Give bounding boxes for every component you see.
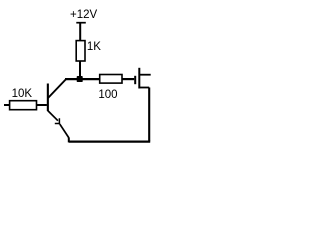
resistor R3 body (100) bbox=[100, 75, 122, 84]
wire: corner up to emitter wire bbox=[68, 138, 70, 143]
MOSFET Q2 channel bar bbox=[138, 68, 140, 89]
wire: bottom rail bbox=[69, 141, 150, 143]
MOSFET Q2 source lead bbox=[139, 87, 149, 89]
transistor Q1 base bar bbox=[47, 84, 49, 112]
wire: R2 to base bar bbox=[37, 104, 47, 106]
MOSFET Q2 drain lead bbox=[139, 74, 150, 76]
junction dot (collector node) bbox=[77, 76, 83, 82]
svg-text:1K: 1K bbox=[87, 41, 101, 53]
power terminal +12V bbox=[76, 22, 86, 24]
wire: base wire left segment bbox=[4, 104, 10, 106]
svg-text:100: 100 bbox=[98, 89, 117, 101]
svg-text:+12V: +12V bbox=[70, 9, 98, 21]
transistor Q1 emitter arrow barbs bbox=[55, 118, 60, 124]
resistor R2 body (10K) bbox=[10, 101, 37, 110]
wire: collector rail to R3 bbox=[65, 78, 100, 80]
wire: R1 bottom to node bbox=[79, 61, 81, 79]
transistor Q1 emitter diagonal bbox=[48, 111, 58, 121]
wire: source down right side bbox=[148, 88, 150, 142]
wire: terminal to R1 top bbox=[79, 23, 81, 41]
svg-text:10K: 10K bbox=[12, 88, 33, 100]
wire: R3 to MOSFET gate bbox=[122, 78, 134, 80]
wire: emitter to bottom rail bbox=[60, 124, 69, 138]
resistor R1 body (1K) bbox=[76, 41, 85, 61]
MOSFET Q2 gate bar bbox=[134, 76, 136, 84]
transistor Q1 collector diagonal bbox=[48, 79, 66, 98]
